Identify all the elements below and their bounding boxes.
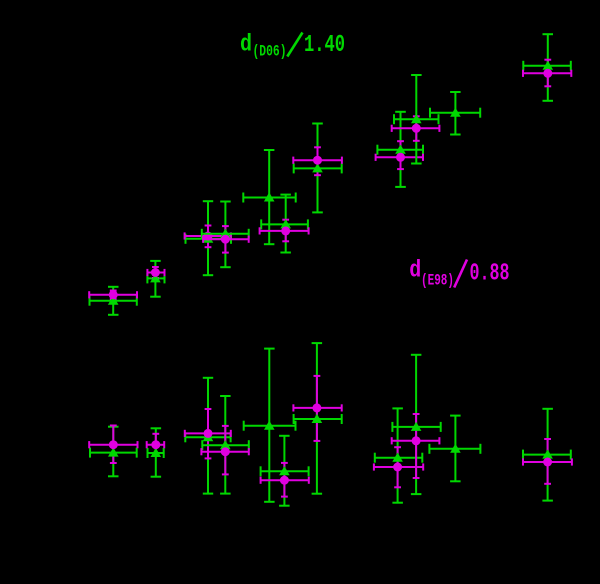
- point B4: green triangle marker: [264, 421, 275, 430]
- point T4: green triangle marker: [264, 192, 275, 201]
- point T9: green triangle marker: [543, 61, 554, 70]
- point B9: magenta circle marker: [543, 458, 552, 467]
- point T9: magenta circle marker: [543, 69, 552, 78]
- point T5: green error bars: [261, 195, 308, 253]
- point T3a: magenta circle marker: [204, 232, 213, 241]
- point T3b: magenta circle marker: [221, 235, 230, 244]
- point T9: magenta error bars: [523, 60, 571, 87]
- svg-text:(D06): (D06): [253, 43, 287, 61]
- point B7a: magenta error bars: [392, 414, 440, 478]
- point T2: green triangle marker: [150, 273, 161, 282]
- magenta text label d_(E98)/0.88: [409, 257, 509, 289]
- point B3b: magenta circle marker: [221, 447, 230, 456]
- point T7b: green error bars: [430, 92, 480, 135]
- point T1: magenta circle marker: [109, 290, 118, 299]
- point T5: magenta circle marker: [281, 226, 290, 235]
- point B7c: green triangle marker: [392, 453, 403, 462]
- point T3a: magenta error bars: [185, 226, 231, 248]
- point B7c: magenta error bars: [374, 447, 423, 487]
- point T1: magenta error bars: [89, 291, 137, 300]
- point B5: magenta circle marker: [280, 476, 289, 485]
- point B2: magenta circle marker: [151, 440, 160, 449]
- svg-text:1.40: 1.40: [304, 32, 345, 59]
- point B7a: magenta circle marker: [412, 436, 421, 445]
- point B2: green error bars: [148, 428, 164, 476]
- point B7c: green error bars: [375, 408, 423, 502]
- point T3b: green triangle marker: [220, 229, 231, 238]
- point B6: green triangle marker: [312, 414, 323, 423]
- point T8: green error bars: [377, 112, 423, 187]
- point B7c: magenta circle marker: [393, 463, 402, 472]
- point B5: green error bars: [261, 436, 309, 506]
- point T7a: green triangle marker: [411, 114, 422, 123]
- point T7b: green triangle marker: [450, 108, 461, 117]
- point B8: green triangle marker: [450, 444, 461, 453]
- point B5: magenta error bars: [261, 463, 309, 497]
- point B1: green triangle marker: [108, 447, 119, 456]
- point T2: green error bars: [147, 261, 164, 297]
- point T7a: magenta circle marker: [412, 124, 421, 133]
- point B3a: green triangle marker: [203, 432, 214, 441]
- point B7a: green error bars: [392, 355, 440, 494]
- point T7a: magenta error bars: [392, 116, 440, 141]
- svg-text:(E98): (E98): [421, 272, 454, 290]
- point B3b: green triangle marker: [220, 440, 231, 449]
- point B6: magenta circle marker: [312, 403, 321, 412]
- point T2: magenta circle marker: [151, 268, 160, 277]
- point B3b: green error bars: [202, 396, 249, 494]
- point T6: magenta circle marker: [313, 156, 322, 165]
- point T1: green error bars: [90, 287, 137, 315]
- point T6: magenta error bars: [293, 147, 342, 175]
- point B6: magenta error bars: [293, 376, 341, 441]
- point B8: green error bars: [429, 416, 480, 482]
- point B9: green triangle marker: [542, 449, 553, 458]
- point B3a: green error bars: [185, 378, 230, 494]
- point T3a: green triangle marker: [203, 234, 214, 243]
- point B2: green triangle marker: [151, 448, 162, 457]
- point T5: magenta error bars: [260, 220, 309, 242]
- point T5: green triangle marker: [280, 219, 291, 228]
- point B4: green error bars: [244, 349, 296, 502]
- point T8: green triangle marker: [395, 145, 406, 154]
- point T6: green triangle marker: [312, 163, 323, 172]
- point B3a: magenta circle marker: [204, 429, 213, 438]
- point T3a: green error bars: [186, 201, 232, 275]
- point B1: magenta error bars: [89, 426, 137, 464]
- point T7a: green error bars: [394, 75, 439, 164]
- svg-text:0.88: 0.88: [470, 260, 510, 287]
- svg-text:d: d: [240, 32, 252, 59]
- point T1: green triangle marker: [108, 296, 119, 305]
- point B9: magenta error bars: [523, 439, 572, 484]
- svg-text:d: d: [409, 257, 421, 284]
- point T2: magenta error bars: [147, 267, 164, 278]
- point B5: green triangle marker: [279, 466, 290, 475]
- point B9: green error bars: [523, 409, 571, 501]
- point B2: magenta error bars: [147, 434, 165, 455]
- point T6: green error bars: [294, 124, 342, 213]
- point B6: green error bars: [294, 343, 342, 494]
- point T8: magenta error bars: [376, 141, 423, 169]
- point B1: green error bars: [90, 427, 137, 477]
- point B3a: magenta error bars: [185, 409, 231, 458]
- point B7a: green triangle marker: [411, 422, 422, 431]
- point T8: magenta circle marker: [396, 153, 405, 162]
- point T9: green error bars: [523, 34, 571, 101]
- green text label d_(D06)/1.40: [240, 32, 345, 61]
- point T3b: green error bars: [202, 202, 249, 268]
- point T3b: magenta error bars: [203, 226, 249, 253]
- point T4: green error bars: [243, 150, 295, 244]
- point B3b: magenta error bars: [201, 426, 248, 475]
- point B1: magenta circle marker: [109, 440, 118, 449]
